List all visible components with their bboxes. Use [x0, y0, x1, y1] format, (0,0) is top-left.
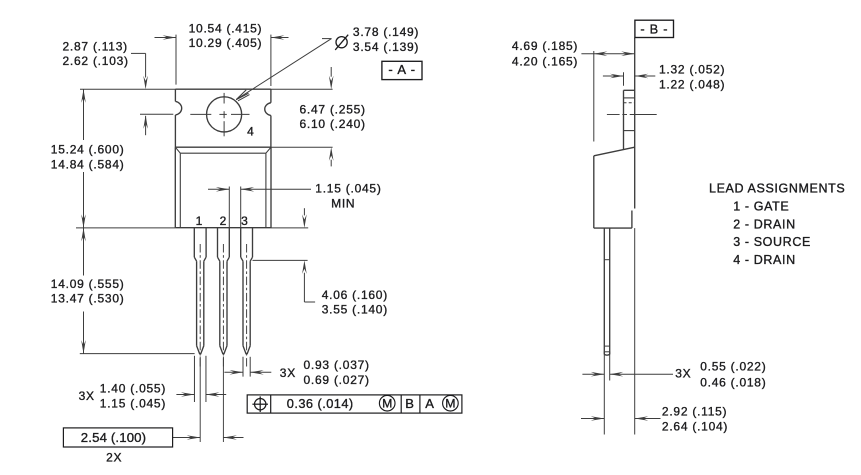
svg-text:2.87 (.113): 2.87 (.113) [63, 39, 128, 53]
svg-text:1.32 (.052): 1.32 (.052) [659, 63, 725, 77]
svg-text:MIN: MIN [331, 196, 355, 210]
svg-text:LEAD ASSIGNMENTS: LEAD ASSIGNMENTS [709, 182, 845, 196]
svg-text:0.93 (.037): 0.93 (.037) [304, 358, 370, 372]
svg-text:6.47 (.255): 6.47 (.255) [300, 102, 366, 116]
svg-text:13.47 (.530): 13.47 (.530) [51, 291, 125, 305]
svg-text:- A -: - A - [388, 62, 416, 77]
svg-text:15.24 (.600): 15.24 (.600) [51, 143, 125, 157]
svg-text:0.55 (.022): 0.55 (.022) [700, 359, 766, 373]
svg-text:2.92 (.115): 2.92 (.115) [662, 405, 727, 419]
svg-text:2.64 (.104): 2.64 (.104) [662, 419, 728, 433]
svg-text:B: B [405, 396, 414, 411]
svg-text:0.69 (.027): 0.69 (.027) [304, 373, 370, 387]
svg-text:4.69 (.185): 4.69 (.185) [512, 39, 578, 53]
svg-text:1.40 (.055): 1.40 (.055) [100, 382, 166, 396]
svg-text:1.22 (.048): 1.22 (.048) [659, 77, 725, 91]
svg-text:3X: 3X [280, 366, 296, 380]
svg-text:4.06 (.160): 4.06 (.160) [322, 288, 388, 302]
svg-text:6.10 (.240): 6.10 (.240) [300, 117, 366, 131]
svg-text:2 - DRAIN: 2 - DRAIN [733, 217, 796, 231]
svg-text:1.15 (.045): 1.15 (.045) [315, 181, 381, 195]
svg-text:3X: 3X [79, 389, 95, 403]
svg-text:4 - DRAIN: 4 - DRAIN [733, 253, 796, 267]
svg-text:1.15 (.045): 1.15 (.045) [100, 396, 166, 410]
svg-text:10.54 (.415): 10.54 (.415) [189, 21, 263, 35]
svg-text:4: 4 [247, 125, 254, 139]
svg-text:3: 3 [241, 214, 248, 228]
svg-text:M: M [382, 397, 392, 411]
svg-text:4.20 (.165): 4.20 (.165) [512, 54, 578, 68]
svg-text:A: A [425, 396, 434, 411]
svg-text:3X: 3X [675, 367, 691, 381]
svg-text:1: 1 [196, 214, 203, 228]
svg-text:0.46 (.018): 0.46 (.018) [700, 375, 766, 389]
svg-text:3 - SOURCE: 3 - SOURCE [733, 235, 811, 249]
svg-text:1 - GATE: 1 - GATE [733, 200, 789, 214]
svg-text:10.29 (.405): 10.29 (.405) [189, 36, 263, 50]
svg-text:14.09 (.555): 14.09 (.555) [51, 277, 125, 291]
svg-text:3.54 (.139): 3.54 (.139) [353, 40, 419, 54]
svg-text:3.55 (.140): 3.55 (.140) [322, 302, 388, 316]
svg-text:2X: 2X [106, 451, 122, 465]
svg-text:2.62 (.103): 2.62 (.103) [63, 54, 129, 68]
svg-text:2: 2 [220, 214, 227, 228]
svg-text:- B -: - B - [640, 22, 668, 37]
svg-text:0.36 (.014): 0.36 (.014) [287, 396, 354, 411]
svg-text:M: M [445, 397, 455, 411]
svg-text:14.84 (.584): 14.84 (.584) [51, 157, 125, 171]
svg-text:2.54 (.100): 2.54 (.100) [81, 430, 146, 445]
svg-text:3.78 (.149): 3.78 (.149) [353, 25, 419, 39]
